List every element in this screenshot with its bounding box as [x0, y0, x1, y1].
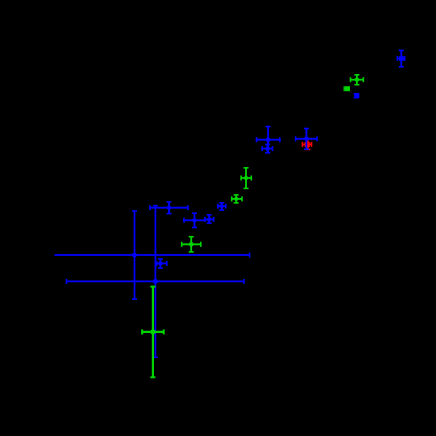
data point P11 blue: marker with error bars — [150, 202, 188, 214]
data point P1 blue: marker with error bars — [397, 50, 404, 66]
data point P2 green: marker with error bars — [351, 75, 364, 85]
data point P12 blue: marker with error bars — [184, 213, 207, 227]
data point P7 red: marker with error bars — [302, 140, 311, 149]
data point P3 green sq: marker with error bars — [344, 86, 350, 91]
data point P9 green: marker with error bars — [232, 195, 242, 203]
data point P10 blue: marker with error bars — [218, 203, 226, 210]
data point P4 blue sq: marker with error bars — [354, 93, 360, 98]
data point P18 big green: marker with error bars — [142, 287, 164, 378]
data point P5b blue: marker with error bars — [262, 144, 272, 152]
data point P15 big blue: marker with error bars — [55, 211, 250, 299]
data point P5a blue: marker with error bars — [257, 127, 280, 153]
data point P16 blue: marker with error bars — [157, 259, 167, 268]
data point P6 blue: marker with error bars — [296, 129, 317, 150]
data point P8 green: marker with error bars — [241, 168, 251, 189]
data point P14 green: marker with error bars — [182, 237, 201, 252]
data point P17 big blue: marker with error bars — [67, 206, 245, 358]
data point P13 blue: marker with error bars — [205, 215, 214, 223]
